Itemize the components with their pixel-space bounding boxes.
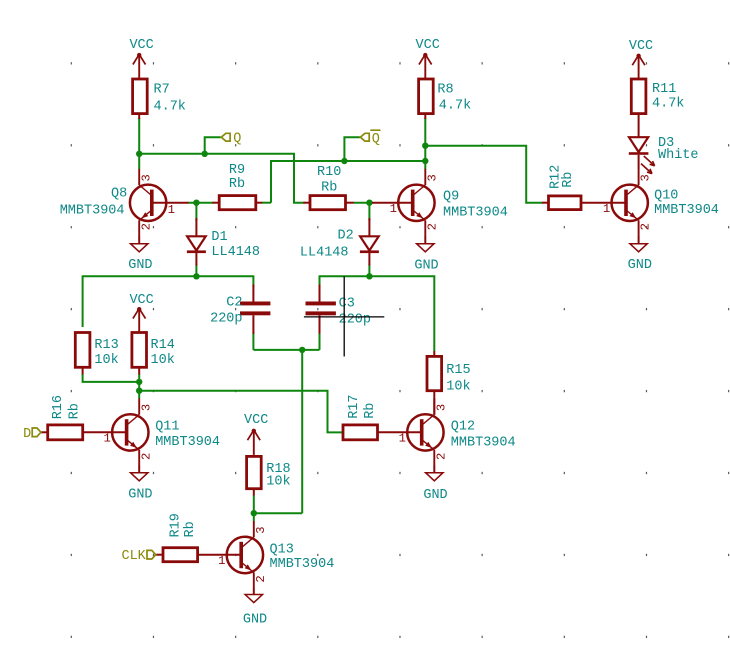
svg-text:GND: GND [423, 488, 447, 503]
svg-text:Q: Q [233, 132, 241, 147]
svg-text:Rb: Rb [561, 172, 576, 188]
svg-text:GND: GND [128, 258, 152, 273]
svg-text:10k: 10k [446, 379, 470, 394]
svg-text:1: 1 [399, 432, 406, 446]
svg-text:GND: GND [128, 487, 152, 502]
svg-text:2: 2 [425, 223, 439, 230]
svg-text:R11: R11 [652, 82, 676, 97]
svg-text:D: D [23, 427, 31, 442]
svg-text:MMBT3904: MMBT3904 [451, 436, 516, 451]
svg-text:220p: 220p [210, 312, 242, 327]
svg-text:4.7k: 4.7k [154, 99, 186, 114]
svg-text:Q13: Q13 [270, 543, 294, 558]
svg-text:220p: 220p [339, 312, 371, 327]
svg-text:GND: GND [628, 258, 652, 273]
svg-text:MMBT3904: MMBT3904 [654, 203, 719, 218]
svg-text:1: 1 [390, 202, 397, 216]
svg-text:R13: R13 [94, 338, 118, 353]
svg-text:2: 2 [139, 223, 153, 230]
svg-text:3: 3 [425, 174, 439, 181]
svg-text:VCC: VCC [244, 413, 268, 428]
svg-text:MMBT3904: MMBT3904 [270, 557, 335, 572]
svg-text:Q10: Q10 [654, 189, 678, 204]
svg-text:3: 3 [254, 526, 268, 533]
svg-text:10k: 10k [266, 474, 290, 489]
svg-text:4.7k: 4.7k [652, 97, 684, 112]
svg-text:1: 1 [603, 202, 610, 216]
svg-text:VCC: VCC [129, 293, 153, 308]
svg-text:MMBT3904: MMBT3904 [60, 204, 125, 219]
svg-text:Q: Q [372, 132, 380, 147]
svg-text:10k: 10k [94, 353, 118, 368]
svg-text:1: 1 [168, 203, 175, 217]
svg-text:4.7k: 4.7k [439, 99, 471, 114]
svg-text:CLK: CLK [121, 549, 146, 564]
svg-text:R16: R16 [51, 395, 66, 419]
svg-text:R14: R14 [151, 338, 175, 353]
svg-text:Rb: Rb [183, 521, 198, 537]
svg-text:R9: R9 [229, 163, 245, 178]
svg-text:Q12: Q12 [451, 420, 475, 435]
svg-text:VCC: VCC [129, 38, 153, 53]
svg-text:10k: 10k [151, 353, 175, 368]
svg-text:Rb: Rb [68, 403, 83, 419]
svg-text:Rb: Rb [229, 177, 245, 192]
svg-text:3: 3 [434, 404, 448, 411]
svg-text:MMBT3904: MMBT3904 [155, 435, 220, 450]
svg-text:1: 1 [218, 554, 225, 568]
svg-text:D2: D2 [338, 228, 354, 243]
svg-text:GND: GND [414, 258, 438, 273]
svg-text:VCC: VCC [416, 38, 440, 53]
svg-text:2: 2 [139, 453, 153, 460]
svg-text:3: 3 [639, 174, 653, 181]
svg-text:Q8: Q8 [111, 187, 127, 202]
svg-text:2: 2 [254, 575, 268, 582]
svg-text:D1: D1 [211, 230, 227, 245]
svg-text:White: White [658, 148, 699, 163]
svg-text:Rb: Rb [363, 403, 378, 419]
svg-text:R15: R15 [446, 363, 470, 378]
svg-text:GND: GND [243, 612, 267, 627]
svg-text:VCC: VCC [629, 39, 653, 54]
svg-text:R19: R19 [169, 513, 184, 537]
svg-text:3: 3 [139, 404, 153, 411]
svg-text:R8: R8 [437, 83, 453, 98]
svg-text:MMBT3904: MMBT3904 [443, 206, 508, 221]
svg-text:LL4148: LL4148 [300, 246, 349, 261]
svg-text:C3: C3 [339, 297, 355, 312]
svg-text:2: 2 [639, 223, 653, 230]
svg-text:R17: R17 [347, 394, 362, 418]
svg-text:R10: R10 [317, 165, 341, 180]
svg-text:1: 1 [103, 432, 110, 446]
svg-text:Q9: Q9 [443, 190, 459, 205]
svg-text:2: 2 [434, 453, 448, 460]
svg-text:R7: R7 [154, 82, 170, 97]
svg-text:Q11: Q11 [155, 420, 179, 435]
svg-text:C2: C2 [226, 296, 242, 311]
svg-text:Rb: Rb [321, 180, 337, 195]
svg-text:LL4148: LL4148 [211, 245, 260, 260]
svg-text:3: 3 [139, 174, 153, 181]
